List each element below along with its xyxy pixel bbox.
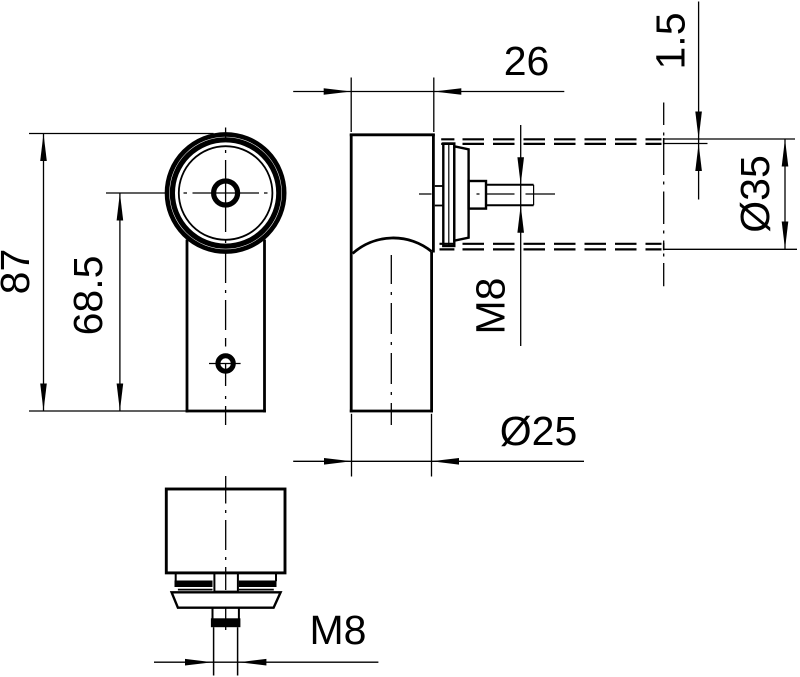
svg-text:26: 26 xyxy=(504,38,550,84)
svg-text:Ø35: Ø35 xyxy=(732,155,778,233)
svg-text:Ø25: Ø25 xyxy=(500,408,578,454)
svg-text:68.5: 68.5 xyxy=(65,256,111,336)
svg-text:M8: M8 xyxy=(467,278,513,335)
svg-text:87: 87 xyxy=(0,249,38,295)
svg-text:M8: M8 xyxy=(310,607,367,653)
svg-text:1.5: 1.5 xyxy=(648,13,694,70)
